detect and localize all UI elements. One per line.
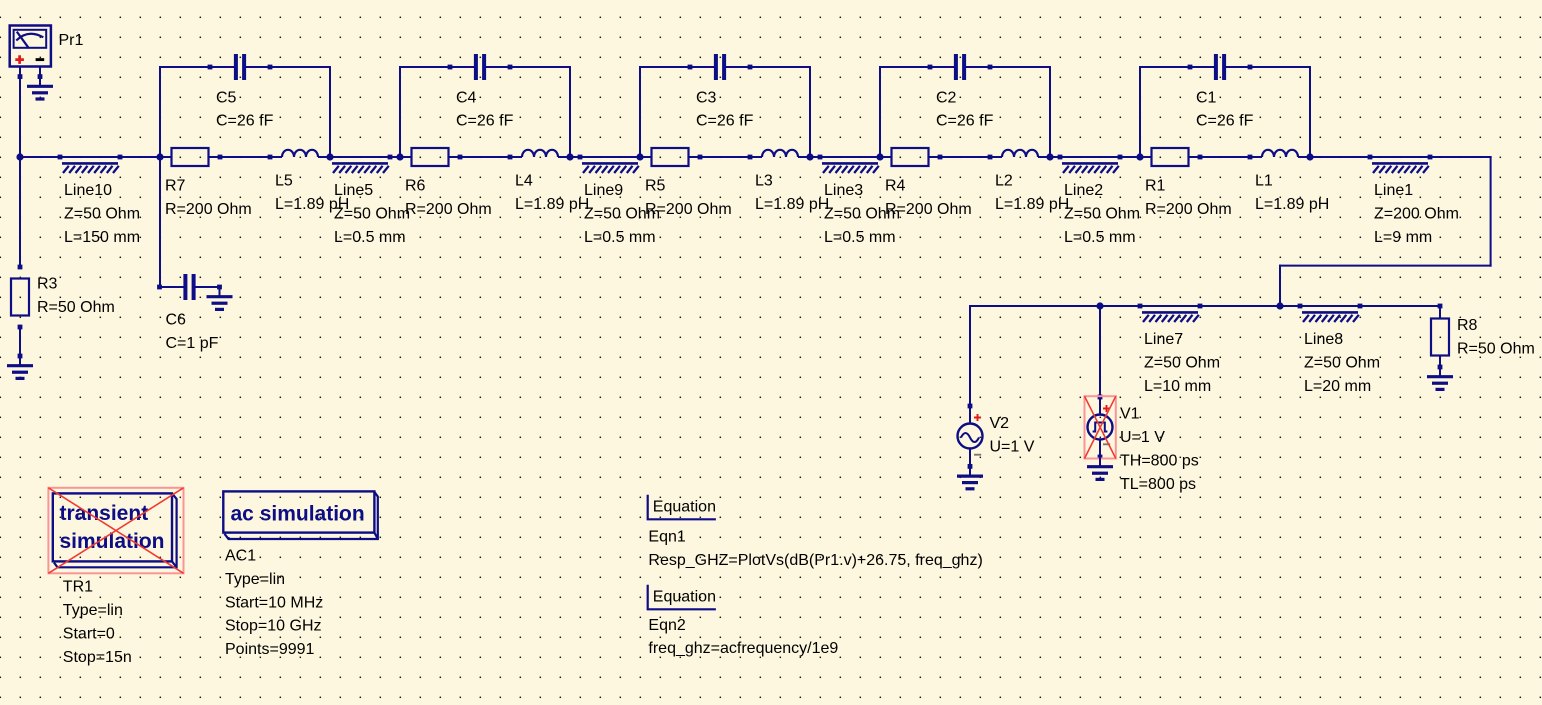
svg-text:L=0.5 mm: L=0.5 mm	[584, 229, 656, 246]
ground R8	[1439, 367, 1441, 377]
wire L3 to junction	[798, 156, 810, 158]
svg-text:Stop=15n: Stop=15n	[63, 649, 132, 666]
svg-text:L5: L5	[275, 173, 293, 190]
voltage source V2	[958, 424, 983, 449]
wire R6 to L4	[449, 156, 523, 158]
svg-text:Points=9991: Points=9991	[225, 641, 315, 658]
svg-text:L2: L2	[995, 173, 1013, 190]
capacitor C3	[714, 54, 718, 80]
capacitor C2	[954, 54, 958, 80]
wire junction to R1	[1140, 156, 1152, 158]
resistor R3	[11, 279, 29, 316]
svg-text:U=1 V: U=1 V	[1120, 429, 1165, 446]
wire riser up C1 left	[1139, 66, 1141, 157]
wire probe plus lead	[19, 66, 21, 157]
svg-text:Equation: Equation	[653, 588, 716, 605]
resistor R7	[172, 148, 209, 166]
svg-text:Line1: Line1	[1374, 182, 1413, 199]
svg-text:transient: transient	[60, 502, 149, 525]
wire cap row right C2	[965, 66, 1051, 68]
wire node A to R3	[19, 157, 21, 267]
svg-text:L4: L4	[515, 173, 533, 190]
wire L5 to junction	[318, 156, 330, 158]
svg-text:TR1: TR1	[63, 579, 93, 596]
svg-text:V1: V1	[1120, 406, 1140, 423]
wire right edge down	[1490, 156, 1492, 267]
svg-text:C2: C2	[936, 89, 957, 106]
svg-text:C3: C3	[696, 89, 717, 106]
ground C6	[219, 287, 221, 297]
transmission line Line2	[1062, 162, 1118, 165]
svg-text:C4: C4	[456, 89, 477, 106]
svg-text:R=50 Ohm: R=50 Ohm	[1457, 340, 1535, 357]
svg-text:Z=200 Ohm: Z=200 Ohm	[1374, 206, 1459, 223]
transmission line Line5	[332, 162, 388, 165]
wire R4 to L2	[929, 156, 1003, 158]
wire L2 to junction	[1038, 156, 1050, 158]
ground V1	[1099, 457, 1101, 467]
probe Pr1	[10, 26, 51, 67]
resistor R5	[652, 148, 689, 166]
wire L1 to junction	[1298, 156, 1310, 158]
wire riser down C2 right	[1049, 66, 1051, 157]
svg-text:L=9 mm: L=9 mm	[1374, 229, 1432, 246]
wire cap row left C2	[879, 66, 955, 68]
transmission line Line7	[1138, 304, 1143, 309]
capacitor C6	[183, 274, 187, 300]
wire junction to R6	[400, 156, 412, 158]
svg-text:Eqn1: Eqn1	[648, 529, 685, 546]
svg-text:C1: C1	[1196, 89, 1217, 106]
wire probe minus lead	[39, 66, 41, 76]
wire riser up C4 left	[399, 66, 401, 157]
transmission line Line1	[1372, 162, 1428, 165]
svg-text:L1: L1	[1255, 173, 1273, 190]
inductor L1	[1262, 150, 1298, 157]
wire junction to R5	[640, 156, 652, 158]
svg-text:R=200 Ohm: R=200 Ohm	[1145, 201, 1232, 218]
inductor L4	[522, 150, 558, 157]
wire to capacitor C6	[160, 286, 186, 288]
svg-text:R4: R4	[885, 177, 906, 194]
wire Line2 span	[1049, 156, 1141, 158]
svg-text:Z=50 Ohm: Z=50 Ohm	[1144, 355, 1220, 372]
wire lower bus	[970, 305, 1440, 307]
svg-text:Resp_GHZ=PlotVs(dB(Pr1.v)+26.7: Resp_GHZ=PlotVs(dB(Pr1.v)+26.75, freq_gh…	[648, 552, 982, 569]
wire R1 to L1	[1189, 156, 1263, 158]
wire Line1 span	[1309, 156, 1431, 158]
svg-text:Z=50 Ohm: Z=50 Ohm	[584, 206, 660, 223]
svg-text:Line5: Line5	[334, 182, 373, 199]
wire Line5 span	[329, 156, 401, 158]
wire bus to R8	[1439, 305, 1441, 319]
svg-text:Eqn2: Eqn2	[648, 617, 685, 634]
simulation block transient TR1	[53, 493, 177, 567]
svg-text:L=150 mm: L=150 mm	[64, 229, 140, 246]
inductor L3	[762, 150, 798, 157]
equation Eqn1	[648, 495, 716, 520]
inductor L2	[1002, 150, 1038, 157]
svg-text:L=20 mm: L=20 mm	[1304, 378, 1371, 395]
svg-text:Z=50 Ohm: Z=50 Ohm	[64, 206, 140, 223]
svg-text:ac simulation: ac simulation	[231, 502, 365, 525]
ground V2	[969, 466, 971, 476]
deactivation box TR1	[48, 488, 183, 574]
svg-text:Z=50 Ohm: Z=50 Ohm	[824, 206, 900, 223]
wire R5 to L3	[689, 156, 763, 158]
svg-text:C=26 fF: C=26 fF	[936, 113, 994, 130]
inductor L5	[282, 150, 318, 157]
wire R3 to ground	[19, 327, 21, 356]
wire cap row left C5	[159, 66, 235, 68]
svg-text:C=26 fF: C=26 fF	[696, 113, 754, 130]
svg-text:L=1.89 pH: L=1.89 pH	[755, 196, 829, 213]
svg-text:C=26 fF: C=26 fF	[216, 113, 274, 130]
voltage source V1	[1088, 415, 1113, 440]
svg-text:Line9: Line9	[584, 182, 623, 199]
node junctions on main wire	[16, 153, 23, 160]
svg-text:L3: L3	[755, 173, 773, 190]
deactivation box V1	[1085, 396, 1116, 458]
svg-text:Line2: Line2	[1064, 182, 1103, 199]
wire L4 to junction	[558, 156, 570, 158]
resistor R8	[1431, 319, 1449, 356]
resistor R4	[892, 148, 929, 166]
svg-text:C=1 pF: C=1 pF	[166, 335, 219, 352]
wire R7 to L5	[209, 156, 283, 158]
wire riser up C5 left	[159, 66, 161, 157]
wire R8 to ground	[1439, 356, 1441, 368]
svg-text:L=0.5 mm: L=0.5 mm	[1064, 229, 1136, 246]
svg-text:R7: R7	[165, 177, 186, 194]
svg-text:Equation: Equation	[653, 498, 716, 515]
transmission line Line10	[62, 162, 118, 165]
wire bus to V2	[969, 305, 971, 424]
svg-text:Stop=10 GHz: Stop=10 GHz	[225, 618, 322, 635]
wire right horizontal back	[1279, 265, 1492, 267]
svg-text:Start=10 MHz: Start=10 MHz	[225, 594, 323, 611]
transmission line Line8	[1298, 304, 1303, 309]
svg-text:Start=0: Start=0	[63, 626, 115, 643]
svg-text:C6: C6	[166, 311, 187, 328]
svg-text:C5: C5	[216, 89, 237, 106]
wire Line9 span	[569, 156, 641, 158]
wire riser up C3 left	[639, 66, 641, 157]
svg-text:AC1: AC1	[225, 548, 256, 565]
capacitor C4	[474, 54, 478, 80]
resistor R6	[412, 148, 449, 166]
wire riser down C5 right	[329, 66, 331, 157]
svg-text:R8: R8	[1457, 317, 1478, 334]
svg-text:L=1.89 pH: L=1.89 pH	[515, 196, 589, 213]
svg-text:R=50 Ohm: R=50 Ohm	[37, 299, 115, 316]
svg-text:R3: R3	[37, 276, 58, 293]
wire riser down C3 right	[809, 66, 811, 157]
wire V1 to ground	[1099, 440, 1101, 458]
svg-text:Pr1: Pr1	[59, 32, 84, 49]
wire bus to V1	[1099, 305, 1101, 415]
svg-text:Line7: Line7	[1144, 331, 1183, 348]
svg-text:Z=50 Ohm: Z=50 Ohm	[1064, 206, 1140, 223]
wire cap row right C4	[485, 66, 571, 68]
svg-text:Line8: Line8	[1304, 331, 1343, 348]
svg-text:L=1.89 pH: L=1.89 pH	[995, 196, 1069, 213]
wire cap row right C5	[245, 66, 331, 68]
svg-text:freq_ghz=acfrequency/1e9: freq_ghz=acfrequency/1e9	[648, 640, 838, 657]
svg-text:L=10 mm: L=10 mm	[1144, 378, 1211, 395]
ground probe	[39, 77, 41, 87]
svg-text:R=200 Ohm: R=200 Ohm	[165, 201, 252, 218]
wire junction to R4	[880, 156, 892, 158]
svg-text:U=1 V: U=1 V	[990, 439, 1035, 456]
wire main to right corner	[1430, 156, 1492, 158]
wire down to bus	[1279, 265, 1281, 306]
svg-text:TL=800 ps: TL=800 ps	[1120, 476, 1196, 493]
svg-text:Z=50 Ohm: Z=50 Ohm	[1304, 355, 1380, 372]
wire C6 riser	[159, 157, 161, 288]
svg-text:Line10: Line10	[64, 182, 112, 199]
svg-text:L=1.89 pH: L=1.89 pH	[1255, 196, 1329, 213]
svg-text:TH=800 ps: TH=800 ps	[1120, 452, 1199, 469]
svg-text:R6: R6	[405, 177, 426, 194]
svg-text:L=0.5 mm: L=0.5 mm	[824, 229, 896, 246]
equation Eqn2	[648, 585, 716, 610]
wire C6 to ground	[194, 286, 220, 288]
wire cap row left C3	[639, 66, 715, 68]
ground R3	[19, 356, 21, 366]
wire cap row right C3	[725, 66, 811, 68]
svg-text:R5: R5	[645, 177, 666, 194]
wire riser down C4 right	[569, 66, 571, 157]
resistor R1	[1152, 148, 1189, 166]
svg-text:R=200 Ohm: R=200 Ohm	[405, 201, 492, 218]
svg-text:Line3: Line3	[824, 182, 863, 199]
wire V2 to ground	[969, 449, 971, 467]
wire junction to R7	[160, 156, 172, 158]
svg-text:Z=50 Ohm: Z=50 Ohm	[334, 206, 410, 223]
svg-text:C=26 fF: C=26 fF	[456, 113, 514, 130]
transmission line Line9	[582, 162, 638, 165]
wire riser down C1 right	[1309, 66, 1311, 157]
svg-text:Type=lin: Type=lin	[225, 571, 285, 588]
simulation block ac AC1	[223, 491, 377, 539]
capacitor C5	[234, 54, 238, 80]
capacitor C1	[1214, 54, 1218, 80]
node bus junctions	[1276, 302, 1283, 309]
transmission line Line3	[822, 162, 878, 165]
wire cap row left C1	[1139, 66, 1215, 68]
svg-text:V2: V2	[990, 415, 1010, 432]
svg-text:Type=lin: Type=lin	[63, 602, 123, 619]
wire cap row left C4	[399, 66, 475, 68]
svg-text:R1: R1	[1145, 177, 1166, 194]
wire riser up C2 left	[879, 66, 881, 157]
svg-text:L=0.5 mm: L=0.5 mm	[334, 229, 406, 246]
svg-text:C=26 fF: C=26 fF	[1196, 113, 1254, 130]
wire Line10 span	[19, 156, 161, 158]
wire cap row right C1	[1225, 66, 1311, 68]
wire Line3 span	[809, 156, 881, 158]
